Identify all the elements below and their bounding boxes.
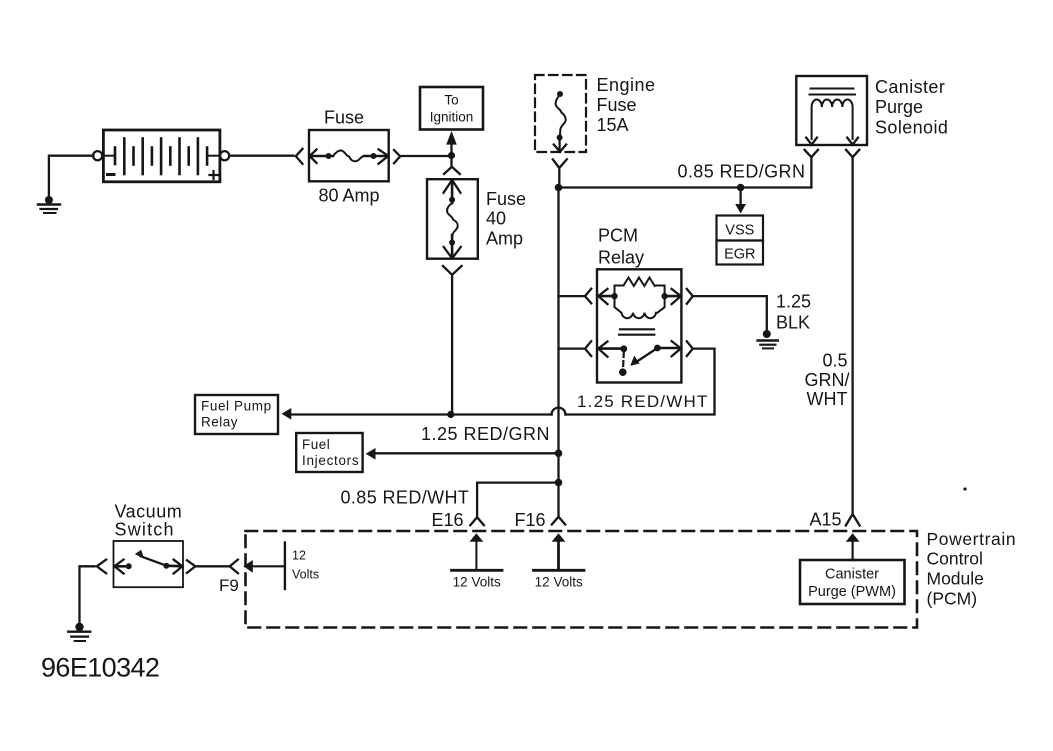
svg-text:F9: F9 [219,576,239,595]
canister purge PWM box [800,560,905,604]
wire solenoid right lead to A15 (0.5 GRN/WHT) [851,157,853,513]
svg-text:Vacuum: Vacuum [115,502,183,522]
connector chevron (female, solenoid left lead) [805,150,819,157]
wire to fuel injectors [372,452,559,454]
node B junction dot [447,411,454,418]
svg-text:E16: E16 [432,510,464,530]
svg-text:Amp: Amp [486,229,523,249]
svg-text:Powertrain: Powertrain [927,529,1017,549]
svg-text:To: To [444,93,458,108]
svg-text:Switch: Switch [115,520,175,540]
svg-text:Fuse: Fuse [486,189,526,209]
arrow to VSS [735,191,746,214]
svg-text:Fuel Pump: Fuel Pump [201,399,272,414]
wire hump over main vertical [552,408,566,415]
wire fuse F3 to node C [558,168,560,188]
wire fuse F1 to node A [402,155,452,157]
svg-text:Relay: Relay [201,415,238,430]
node F junction dot (E16 branch) [555,479,563,487]
svg-text:A15: A15 [810,510,842,530]
node C junction dot [555,184,563,192]
svg-text:1.25 RED/GRN: 1.25 RED/GRN [421,424,550,444]
solenoid L1 lead arrows [806,138,817,145]
wire node C branch to relay switch [559,347,585,349]
svg-text:40: 40 [486,209,506,229]
relay K1 switch [598,341,681,376]
svg-text:Fuse: Fuse [597,95,637,115]
connector E16 [470,517,484,525]
connector F16 [552,517,565,525]
svg-text:12 Volts: 12 Volts [535,575,583,590]
speck [963,487,966,490]
wire node C to canister purge solenoid (0.85 RED/GRN) [559,159,812,188]
ground G2 (relay coil) [758,330,778,348]
svg-text:Ignition: Ignition [430,110,474,125]
solenoid L1 coil [812,99,853,139]
wire main vertical (node C down to F16) [557,188,559,517]
VSS box [717,216,764,241]
wire relay switch loop (1.25 RED/WHT) [565,349,714,415]
A15 terminal inside PCM [846,533,860,560]
svg-text:Purge: Purge [875,97,923,117]
F9 terminal inside PCM [243,543,285,590]
connector chevron (female, below fuse F2) [443,266,462,275]
wire to fuel pump relay (1.25 RED/GRN) [288,413,552,415]
svg-text:1.25 RED/WHT: 1.25 RED/WHT [577,392,709,411]
svg-text:Purge (PWM): Purge (PWM) [808,584,896,600]
connector chevron (female, relay coil right) [687,289,693,304]
fuse F2 (40 Amp) box [427,179,478,259]
PCM relay K1 box [597,269,681,382]
svg-text:Fuel: Fuel [302,437,330,452]
label Vacuum Switch [115,502,183,540]
wire fuse F2 to node B [451,276,453,415]
label Fuse 40 Amp [486,189,526,249]
label Engine Fuse 15A [597,75,656,135]
svg-text:80 Amp: 80 Amp [319,186,380,206]
connector chevron (female, fuse F1 left) [296,149,303,164]
svg-text:Control: Control [927,549,983,569]
connector chevron (female, solenoid right lead) [846,150,859,157]
connector chevron (female, relay switch left) [585,341,591,356]
connector chevron (female, below fuse F3) [553,159,567,168]
To Ignition box [420,87,483,130]
svg-text:PCM: PCM [598,226,638,246]
svg-text:12 Volts: 12 Volts [453,575,501,590]
label PCM Relay [598,226,644,268]
ground G1 (battery negative) [38,196,60,213]
wire node C branch to relay coil [559,295,585,297]
wire ground to vacuum switch [80,566,95,624]
svg-text:0.85 RED/WHT: 0.85 RED/WHT [341,488,470,508]
node D junction dot (VSS branch) [737,184,745,192]
svg-text:EGR: EGR [724,247,755,263]
vacuum switch S1 contacts [114,550,182,574]
svg-text:Fuse: Fuse [324,108,364,128]
connector chevron (female, relay coil left) [585,289,591,304]
svg-text:Relay: Relay [598,248,644,268]
relay K1 coil [598,278,681,319]
svg-text:0.85 RED/GRN: 0.85 RED/GRN [678,162,806,182]
node E junction dot (fuel injectors branch) [555,450,563,458]
connector chevron (female, fuse F1 right) [394,150,400,163]
svg-text:15A: 15A [597,115,629,135]
EGR box [717,241,764,265]
arrow into fuel pump relay [282,408,292,420]
label Powertrain Control Module (PCM) [927,529,1017,609]
svg-text:96E10342: 96E10342 [41,653,159,683]
connector chevron (female, relay switch right) [687,341,693,356]
ground G3 (vacuum switch) [68,623,90,641]
svg-text:Canister: Canister [825,567,879,583]
svg-text:1.25: 1.25 [776,292,811,312]
fuse F1 element [310,149,389,163]
connector chevron (female, F9) [230,560,238,574]
svg-text:Engine: Engine [597,75,656,95]
svg-text:Canister: Canister [875,77,945,97]
svg-text:GRN/: GRN/ [805,370,850,390]
canister purge solenoid L1 box [796,76,867,145]
svg-text:F16: F16 [515,510,546,530]
battery B1 [93,130,229,182]
label 1.25 BLK [776,292,811,333]
solenoid L1 top lines [811,88,854,90]
wire relay coil to ground (1.25 BLK) [694,296,767,330]
svg-text:VSS: VSS [725,223,754,239]
node A junction dot [448,152,455,159]
fuse F1 (80 Amp) box [309,130,389,181]
connector chevron (female, vacuum switch right) [187,560,196,573]
wire battery negative to ground [49,156,94,197]
svg-text:BLK: BLK [776,313,810,333]
svg-text:12: 12 [292,549,306,563]
label 12 Volts (F9) [292,549,319,582]
connector chevron (female, above fuse F2) [450,159,452,167]
svg-text:(PCM): (PCM) [927,589,978,609]
engine fuse F3 dashed box [535,75,586,152]
svg-text:Solenoid: Solenoid [875,118,948,138]
vacuum switch S1 box [114,541,184,587]
svg-text:WHT: WHT [807,389,848,409]
label 0.5 GRN/WHT [805,351,850,410]
E16 terminal inside PCM (12 Volts) [452,533,503,570]
F16 terminal inside PCM (12 Volts) [534,533,585,570]
PCM dashed box [246,531,918,628]
wire node F to E16 [477,483,558,517]
connector A15 [846,514,860,526]
fuel pump relay box [195,395,278,434]
relay K1 core lines [620,328,654,330]
arrow to ignition [446,131,457,152]
arrow into fuel injectors [366,448,376,460]
svg-text:Volts: Volts [292,568,319,582]
svg-text:Injectors: Injectors [302,453,359,468]
svg-text:0.5: 0.5 [822,351,847,371]
fuel injectors box [296,433,362,472]
connector chevron (female, vacuum switch left) [97,560,106,574]
fuse F3 element [554,91,566,152]
wire vacuum switch to F9 [197,565,229,567]
wire battery positive to fuse F1 [229,155,293,157]
svg-text:Module: Module [927,569,984,589]
label Canister Purge Solenoid [875,77,948,138]
fuse F2 element [444,180,461,258]
